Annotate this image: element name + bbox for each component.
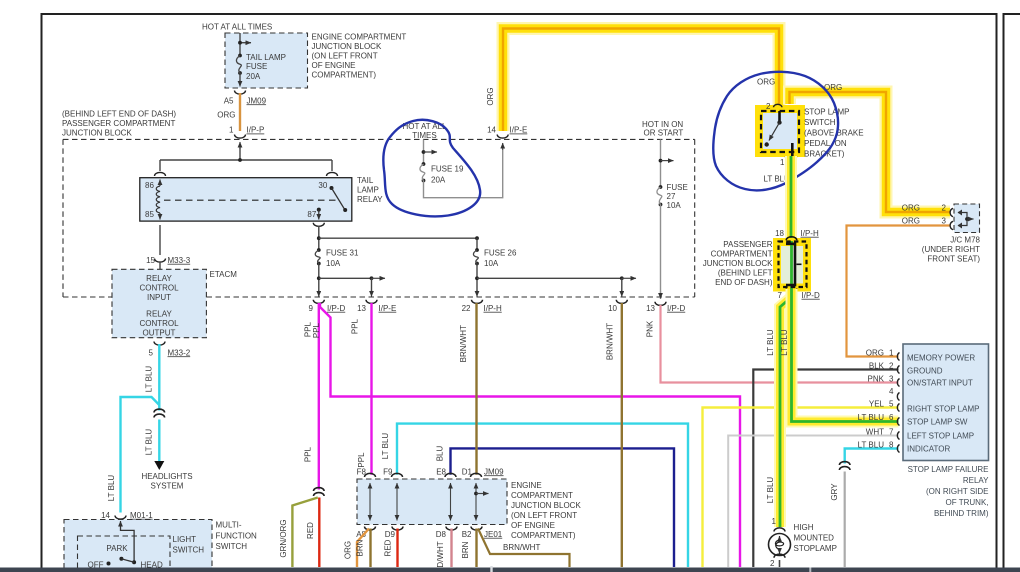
svg-text:LT BLU: LT BLU [145, 366, 154, 393]
svg-text:8: 8 [889, 441, 894, 450]
junction and rail fuse 26 to pin 10 with arrow [475, 276, 636, 296]
label ORG (vertical, I/P-E wire) [486, 87, 495, 105]
wire BRN/WHT (22 I/P-H down to D1) [475, 303, 477, 475]
svg-text:RIGHT STOP LAMP: RIGHT STOP LAMP [907, 404, 979, 413]
connector D8 bump [446, 527, 457, 531]
connector 14 M01-1 bump [115, 516, 126, 520]
wire rail 87 to fuse 26 top [319, 236, 479, 240]
wire BRN (A8 straight down) [369, 529, 371, 568]
label FUSE 31 10A [326, 248, 359, 267]
label 14 I/P-E [487, 126, 527, 135]
svg-text:TAIL LAMP: TAIL LAMP [246, 53, 286, 62]
label ETACM [210, 270, 238, 279]
svg-text:SWITCH: SWITCH [804, 118, 836, 127]
svg-text:PASSENGER: PASSENGER [723, 240, 772, 249]
stop lamp switch contact symbol [765, 111, 793, 156]
svg-text:OR START: OR START [644, 128, 684, 137]
svg-text:ENGINE: ENGINE [511, 481, 542, 490]
svg-text:JM09: JM09 [484, 467, 504, 476]
svg-text:FUSE 26: FUSE 26 [484, 248, 517, 257]
connector 13 I/P-E bump [366, 300, 377, 304]
inline connector on LT BLU wire [154, 409, 165, 417]
label 18 I/P-H [775, 229, 819, 238]
svg-text:(ON LEFT FRONT: (ON LEFT FRONT [312, 52, 378, 61]
wire fuse 27 column [659, 139, 674, 187]
wire fuse 19 bottom rail to I/P-E 14 [424, 143, 503, 198]
wire RED/WHT (D8 down) [450, 529, 452, 568]
svg-text:BEHIND TRIM): BEHIND TRIM) [934, 509, 989, 518]
label LT BLU (vertical, stoplamp wire) [766, 329, 775, 356]
svg-text:WHT: WHT [866, 428, 884, 437]
svg-text:LT BLU: LT BLU [107, 475, 116, 502]
svg-text:I/P-D: I/P-D [667, 304, 685, 313]
label BRN/WHT (vertical, pin 22 wire) [459, 325, 468, 362]
svg-text:9: 9 [309, 304, 314, 313]
svg-text:10A: 10A [484, 259, 499, 268]
label HOT AT ALL TIMES (top left) [202, 23, 272, 32]
wire RED (D9 down) [396, 529, 398, 568]
label LT BLU (vertical, relay wire) [780, 329, 789, 356]
label ENGINE COMPARTMENT JUNCTION BLOCK (ON LEFT FRONT OF ENGINE COMPARTMENT) block 2 [511, 481, 581, 540]
fuse Tail Lamp Fuse 20A [236, 54, 241, 87]
light switch contacts PARK OFF HEAD [107, 557, 137, 566]
svg-text:LT BLU: LT BLU [766, 329, 775, 356]
svg-text:GRN/ORG: GRN/ORG [279, 519, 288, 557]
svg-text:F8: F8 [357, 467, 367, 476]
headlights system arrow [154, 461, 164, 470]
svg-text:LT BLU: LT BLU [381, 433, 390, 460]
label FUSE 19 20A [431, 164, 464, 184]
svg-text:LT BLU: LT BLU [858, 441, 885, 450]
svg-text:13: 13 [646, 304, 655, 313]
label BRN/WHT (JE01 wire) [503, 543, 540, 552]
junction block 2 internal arrows E8-D8 [450, 483, 452, 521]
relay switch contact pin 30 to 87 [317, 186, 347, 220]
svg-text:GROUND: GROUND [907, 366, 943, 375]
svg-text:CONTROL: CONTROL [139, 319, 179, 328]
label HOT IN ON OR START [642, 120, 683, 138]
svg-text:F9: F9 [383, 467, 393, 476]
svg-text:ORG: ORG [344, 541, 353, 559]
J/C M78 junction connector dashed box [954, 204, 980, 233]
svg-text:(BEHIND LEFT: (BEHIND LEFT [718, 268, 773, 277]
inline connector on PPL wire [314, 488, 325, 496]
svg-text:15: 15 [146, 256, 155, 265]
wire fuse 19 column [422, 139, 437, 164]
wire relay pin 85 to connector 15 M33-3 [159, 225, 161, 255]
label 5 M33-2 [149, 348, 191, 357]
engine compartment junction block (tail lamp fuse) dashed box [225, 33, 308, 88]
label LT BLU (vertical, lower stoplamp wire) [766, 477, 775, 504]
label LT BLU (vertical, M01-1 branch wire) [107, 475, 116, 502]
wire WHT (relay pin 7 to bottom) [728, 436, 898, 568]
svg-text:PARK: PARK [106, 544, 128, 553]
wire LT BLU below inline connector to headlights arrow [158, 420, 160, 462]
label 2 (switch pin) [766, 102, 771, 111]
label TAIL LAMP FUSE 20A [246, 53, 286, 81]
svg-text:ORG: ORG [866, 349, 884, 358]
svg-text:E8: E8 [436, 467, 446, 476]
svg-text:LT BLU: LT BLU [766, 477, 775, 504]
label 14 M01-1 [101, 511, 153, 520]
wire YEL (relay pin 5 to bottom) [703, 408, 899, 568]
svg-text:JE01: JE01 [484, 530, 503, 539]
label 9 I/P-D [309, 304, 346, 313]
J/C M78 internal links [958, 210, 974, 229]
wire GRY (below inline connector to bottom) [844, 472, 846, 568]
svg-text:LT BLU: LT BLU [145, 429, 154, 456]
svg-text:TAIL: TAIL [357, 176, 374, 185]
label HIGH MOUNTED STOPLAMP [794, 523, 837, 553]
svg-text:ORG: ORG [902, 216, 920, 225]
wire LT BLU (M33-2 to headlights system and M01-1) [121, 344, 160, 513]
connector A8 bump [365, 527, 376, 531]
label OFF [88, 560, 104, 569]
wire relay pin 87 down to fuse rail [317, 226, 321, 250]
label FUSE 26 10A [484, 248, 517, 267]
svg-text:BRN: BRN [356, 539, 365, 556]
label BRN (vertical, B2) [461, 541, 470, 558]
label RELAY CONTROL INPUT / RELAY CONTROL OUTPUT [139, 274, 179, 338]
J/C M78 pin 3 bump [950, 221, 953, 229]
svg-text:GRY: GRY [830, 483, 839, 501]
wire PPL (13 I/P-E down to junction block F8) [370, 303, 372, 475]
connector bump relay pin 86 [155, 172, 166, 176]
svg-text:STOP LAMP: STOP LAMP [804, 107, 850, 116]
connector 14 I/P-E bump [497, 135, 508, 139]
label GRY (vertical) [830, 483, 839, 501]
svg-text:86: 86 [145, 181, 154, 190]
svg-text:BLU: BLU [436, 445, 445, 461]
svg-text:COMPARTMENT: COMPARTMENT [511, 491, 573, 500]
label J/C M78 (UNDER RIGHT FRONT SEAT) [922, 235, 981, 263]
connector A5 JM09 bump [235, 91, 246, 95]
label RED (vertical, D9) [384, 539, 393, 556]
ETACM relay control module dashed box [112, 269, 206, 337]
svg-text:PPL: PPL [304, 446, 313, 462]
label LT BLU (vertical, M33-2 wire upper) [145, 366, 154, 393]
junction block 18 I/P-H dashed border and bracket [779, 237, 807, 292]
label ORG (vertical, A8) [344, 541, 353, 559]
wire BRN/WHT (10 down to bottom) [621, 303, 623, 567]
connector pin 1 bump (switch bottom) [786, 157, 797, 161]
svg-text:OF TRUNK,: OF TRUNK, [946, 498, 989, 507]
svg-text:JUNCTION BLOCK: JUNCTION BLOCK [312, 42, 382, 51]
svg-text:PPL: PPL [312, 322, 321, 338]
label 2 (stoplamp pin) [770, 559, 775, 568]
page frame right border [996, 13, 998, 568]
svg-text:14: 14 [487, 126, 496, 135]
label ORG 3 (J/C M78) [902, 216, 947, 225]
passenger compartment junction block big dashed box [63, 139, 695, 297]
wire LT BLU (relay pin 8 to inline connector) [845, 449, 899, 464]
engine compartment junction block 2 dashed box [357, 479, 507, 525]
svg-text:A5: A5 [224, 96, 234, 105]
page frame top border [41, 13, 998, 15]
svg-text:CONTROL: CONTROL [139, 283, 179, 292]
wire ORG highlighted (I/P-E 14 to stop lamp switch pin 2) yellow overmark [503, 29, 779, 132]
wire BLK (relay pin 2 to bottom) [753, 370, 898, 568]
label PNK (vertical) [646, 320, 655, 337]
svg-text:5: 5 [889, 400, 894, 409]
svg-text:1: 1 [889, 349, 894, 358]
svg-text:7: 7 [889, 428, 894, 437]
svg-text:I/P-D: I/P-D [327, 304, 345, 313]
relay pin bumps 1-8 [897, 353, 899, 453]
svg-text:BLK: BLK [869, 362, 885, 371]
svg-text:YEL: YEL [869, 400, 885, 409]
svg-text:B2: B2 [462, 530, 472, 539]
wire feeder I/P-P to tail lamp relay pins 86 and 30 [160, 142, 332, 171]
page frame left border [41, 13, 43, 568]
svg-text:PPL: PPL [357, 452, 366, 468]
svg-text:D8: D8 [436, 530, 447, 539]
label 22 I/P-H [462, 304, 502, 313]
svg-text:INPUT: INPUT [147, 293, 171, 302]
wire M01-1 into light switch [121, 521, 135, 561]
label 13 I/P-D [646, 304, 685, 313]
connector bump relay pin 87 [313, 223, 324, 227]
svg-text:OF ENGINE: OF ENGINE [511, 521, 555, 530]
svg-text:PNK: PNK [868, 375, 885, 384]
relay pin wire labels ORG 1 / BLK 2 / PNK 3 / 4 / YEL 5 / LT BLU 6 / WHT 7 / LT BLU 8 [858, 349, 894, 450]
junction block 2 internal tap with arrow [474, 492, 488, 496]
label FUSE 27 10A [667, 183, 688, 210]
label MULTI-FUNCTION SWITCH [216, 521, 258, 552]
wire ORG highlighted (stop lamp switch pin 2 to J/C M78 pin 2) yellow overmark [790, 92, 951, 212]
label BRN (vertical, A8) [356, 539, 365, 556]
svg-text:ORG: ORG [486, 87, 495, 105]
inline connector on pin 8 wire [839, 462, 850, 470]
label ORG (on wire to J/C M78) [824, 83, 842, 92]
svg-text:2: 2 [766, 102, 771, 111]
svg-text:3: 3 [889, 375, 894, 384]
label LT BLU (below switch) [764, 174, 791, 183]
label 10 [608, 304, 617, 313]
svg-text:2: 2 [942, 203, 947, 212]
svg-text:(ON LEFT FRONT: (ON LEFT FRONT [511, 511, 577, 520]
wire LT BLU (cyan from F9 up and right to x688 down) [397, 424, 688, 567]
svg-text:FUNCTION: FUNCTION [216, 532, 258, 541]
next page left border [1003, 13, 1020, 568]
svg-text:D1: D1 [462, 467, 473, 476]
svg-text:HIGH: HIGH [794, 523, 814, 532]
svg-text:FUSE 31: FUSE 31 [326, 248, 359, 257]
relay coil pin 86 to 85 [156, 180, 160, 220]
svg-text:ORG: ORG [902, 203, 920, 212]
label ORG [217, 111, 235, 120]
label (BEHIND LEFT END OF DASH) PASSENGER COMPARTMENT JUNCTION BLOCK [62, 109, 176, 137]
fuse FUSE 27 10A [657, 185, 662, 299]
svg-text:(ON RIGHT SIDE: (ON RIGHT SIDE [926, 487, 989, 496]
wire ORG (A8 branch down-left) [357, 529, 369, 568]
connector F8 bump [365, 473, 376, 477]
wire GRN/ORG (below inline connector) [292, 498, 317, 568]
wire BRN/WHT (JE01 right then down) [478, 529, 570, 568]
svg-text:3: 3 [942, 216, 947, 225]
J/C M78 pin 2 bump [950, 208, 953, 216]
svg-text:FUSE: FUSE [246, 62, 267, 71]
light switch inner dashed box [78, 536, 171, 572]
svg-text:MEMORY POWER: MEMORY POWER [907, 353, 975, 362]
label LIGHT SWITCH [173, 535, 205, 555]
wire PPL (9 I/P-D first branch down to inline connector) [318, 303, 320, 490]
svg-text:M01-1: M01-1 [130, 511, 153, 520]
relay function labels [907, 353, 979, 453]
svg-text:1: 1 [780, 158, 785, 167]
svg-text:COMPARTMENT): COMPARTMENT) [312, 71, 377, 80]
high mounted stoplamp bulb [769, 534, 791, 556]
svg-text:PPL: PPL [351, 318, 360, 334]
label PPL (vertical, pin 9 wire A) [304, 321, 313, 337]
fuse FUSE 26 10A [473, 238, 478, 296]
label ENGINE COMPARTMENT JUNCTION BLOCK (ON LEFT FRONT OF ENGINE COMPARTMENT) [312, 33, 407, 80]
svg-text:M33-3: M33-3 [168, 256, 191, 265]
wire PNK (13 I/P-D to relay pin 3) [661, 305, 899, 383]
connector 22 I/P-H bump [472, 300, 483, 304]
svg-text:LT BLU: LT BLU [858, 413, 885, 422]
fuse FUSE 19 20A [420, 162, 425, 182]
svg-text:1: 1 [772, 517, 777, 526]
wire ORG (J/C M78 pin 3 to relay pin 1) [847, 226, 950, 357]
svg-text:LAMP: LAMP [357, 185, 379, 194]
svg-text:RED: RED [384, 539, 393, 556]
wire LT BLU highlighted (I/P-D 7 to high mounted stoplamp) [780, 289, 792, 527]
bottom taskbar strip [0, 566, 1020, 572]
svg-text:BRN: BRN [461, 541, 470, 558]
hand-drawn blue circle around stop lamp switch [713, 72, 838, 191]
connector I/P-P 1 bump [235, 135, 246, 139]
wire RED (below inline connector) [318, 498, 320, 568]
svg-text:JM09: JM09 [247, 96, 267, 105]
svg-text:M33-2: M33-2 [168, 348, 191, 357]
svg-text:I/P-P: I/P-P [247, 126, 265, 135]
connector F9 bump [392, 473, 403, 477]
svg-text:MULTI-: MULTI- [216, 521, 242, 530]
label 7 I/P-D [778, 291, 820, 300]
svg-text:SYSTEM: SYSTEM [151, 481, 184, 490]
svg-text:RELAY: RELAY [146, 310, 172, 319]
stop lamp failure relay box [903, 344, 989, 461]
connector pin 2 bump (switch top) [774, 104, 782, 107]
svg-text:JUNCTION BLOCK: JUNCTION BLOCK [703, 259, 773, 268]
svg-text:STOP LAMP FAILURE: STOP LAMP FAILURE [908, 465, 989, 474]
label BRN/WHT (vertical, pin 10 wire) [606, 323, 615, 360]
wire feed inside tail lamp fuse block [238, 33, 251, 56]
svg-text:RELAY: RELAY [357, 195, 383, 204]
svg-text:10A: 10A [667, 201, 682, 210]
labels F8 F9 E8 D1 JM09 [357, 467, 504, 476]
connector E8 bump [445, 473, 456, 477]
label A5 JM09 [224, 96, 267, 105]
junction block 2 internal arrows D1-B2 [475, 483, 477, 521]
label STOP LAMP SWITCH (ABOVE BRAKE PEDAL, ON BRACKET) [804, 107, 864, 158]
junction block 2 internal arrows F8-A8 [369, 483, 371, 521]
svg-text:22: 22 [462, 304, 471, 313]
svg-text:D/WHT: D/WHT [436, 541, 445, 567]
wire ORG (A5 to I/P-P 1) [239, 93, 241, 131]
svg-text:BRN/WHT: BRN/WHT [459, 325, 468, 362]
fuse FUSE 31 10A [315, 248, 320, 294]
svg-text:PASSENGER COMPARTMENT: PASSENGER COMPARTMENT [62, 119, 175, 128]
svg-text:OF ENGINE: OF ENGINE [312, 61, 356, 70]
svg-text:LEFT STOP LAMP: LEFT STOP LAMP [907, 431, 974, 440]
svg-text:6: 6 [889, 413, 894, 422]
junction block 2 internal arrows F9-D9 [396, 483, 398, 521]
stop lamp switch highlighted box [759, 109, 801, 153]
passenger compartment junction block 18 I/P-H highlighted [777, 242, 807, 288]
svg-text:1: 1 [229, 126, 234, 135]
wire LT BLU highlighted (I/P-D 7 to relay pin 6 STOP LAMP SW) [792, 289, 899, 422]
svg-text:JUNCTION BLOCK: JUNCTION BLOCK [62, 128, 132, 137]
svg-text:RELAY: RELAY [146, 274, 172, 283]
label BLU (vertical, above E8) [436, 445, 445, 461]
svg-text:14: 14 [101, 511, 110, 520]
svg-text:(UNDER RIGHT: (UNDER RIGHT [922, 245, 980, 254]
svg-text:RELAY: RELAY [963, 476, 989, 485]
connector bump high mounted stoplamp pin 1 [774, 528, 785, 532]
svg-text:RED: RED [306, 522, 315, 539]
svg-text:27: 27 [667, 192, 676, 201]
svg-text:ORG: ORG [757, 77, 775, 86]
label ORG (near switch corner) [757, 77, 775, 86]
svg-text:ENGINE COMPARTMENT: ENGINE COMPARTMENT [312, 33, 407, 42]
svg-text:COMPARTMENT): COMPARTMENT) [511, 531, 576, 540]
svg-text:(BEHIND LEFT END OF DASH): (BEHIND LEFT END OF DASH) [62, 109, 176, 118]
svg-text:PNK: PNK [646, 320, 655, 337]
svg-text:JUNCTION BLOCK: JUNCTION BLOCK [511, 501, 581, 510]
connector D9 bump [392, 527, 403, 531]
label LT BLU (vertical, above F9) [381, 433, 390, 460]
label TAIL LAMP RELAY [357, 176, 383, 204]
svg-text:TIMES: TIMES [412, 131, 436, 140]
svg-text:J/C M78: J/C M78 [950, 235, 980, 244]
relay pin labels 86 30 85 87 [145, 181, 328, 219]
svg-text:I/P-H: I/P-H [484, 304, 502, 313]
svg-text:BRN/WHT: BRN/WHT [606, 323, 615, 360]
svg-text:FUSE 19: FUSE 19 [431, 164, 464, 173]
label 1 (stoplamp pin) [772, 517, 777, 526]
label STOP LAMP FAILURE RELAY (ON RIGHT SIDE OF TRUNK, BEHIND TRIM) [908, 465, 990, 518]
svg-text:30: 30 [318, 181, 327, 190]
svg-text:ETACM: ETACM [210, 270, 238, 279]
svg-text:ORG: ORG [217, 111, 235, 120]
svg-text:SWITCH: SWITCH [173, 545, 205, 554]
svg-text:2: 2 [889, 362, 894, 371]
wire LT BLU highlighted (switch pin 1 to I/P-H 18) [785, 156, 797, 240]
label 15 M33-3 [146, 256, 191, 265]
label PPL (vertical, pin 13 wire) [351, 318, 360, 334]
label GRN/ORG (vertical) [279, 519, 288, 557]
label LT BLU (vertical, M33-2 wire lower) [145, 429, 154, 456]
svg-text:END OF DASH): END OF DASH) [715, 278, 773, 287]
label RED (vertical) [306, 522, 315, 539]
tail lamp relay box [140, 178, 352, 221]
svg-text:I/P-E: I/P-E [379, 304, 397, 313]
svg-text:MOUNTED: MOUNTED [794, 533, 835, 542]
svg-text:2: 2 [770, 559, 775, 568]
hand-drawn blue circle around fuse 19 [383, 120, 480, 217]
wire BLU (navy from E8 up right and down at x674) [451, 448, 675, 567]
junction and rail to I/P-E 13 with arrow [317, 276, 385, 296]
connector 5 M33-2 bump [154, 342, 165, 346]
multi-function switch dashed box [64, 520, 212, 572]
label PARK [106, 544, 128, 553]
svg-text:D9: D9 [385, 530, 396, 539]
label HOT AT ALL TIMES (fuse 19, circled) [402, 122, 447, 140]
svg-text:10A: 10A [326, 259, 341, 268]
connector 9 I/P-D bump [313, 300, 324, 304]
